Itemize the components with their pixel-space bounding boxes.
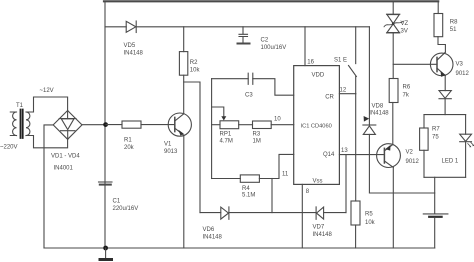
transistor V1 9013 [168,113,191,248]
transformer T1 core [21,110,23,139]
potentiometer RP1 [212,121,253,129]
resistor R2 [179,27,187,114]
svg-text:IN4148: IN4148 [203,235,223,241]
svg-text:11: 11 [282,172,289,178]
svg-text:IN4148: IN4148 [313,232,333,238]
svg-text:C1: C1 [113,199,121,205]
node junction bottom rail [103,246,108,251]
svg-text:VD5: VD5 [124,43,136,49]
svg-text:13: 13 [341,148,348,154]
diode VD9 under V3 [439,91,451,115]
svg-text:V2: V2 [406,150,414,156]
svg-text:~220V: ~220V [0,145,18,151]
svg-text:LED 1: LED 1 [442,159,459,165]
svg-text:R6: R6 [403,84,411,90]
svg-text:9013: 9013 [164,149,178,155]
svg-text:51: 51 [450,27,457,33]
svg-text:C2: C2 [261,38,269,44]
transistor V3 9012 [430,52,453,90]
svg-text:R7: R7 [432,127,440,133]
svg-text:IN4148: IN4148 [369,110,389,116]
svg-text:VD7: VD7 [313,225,325,231]
svg-text:T1: T1 [16,103,24,109]
wire pin 12 CR [339,93,355,95]
wire oscillator vertical [211,79,213,179]
capacitor C1 [99,182,113,185]
svg-text:220u/16V: 220u/16V [113,206,139,212]
svg-text:CR: CR [325,95,334,101]
wire bridge left vertex down to bottom rail [44,125,53,248]
svg-text:VDD: VDD [312,73,325,79]
wire R4 branch down to VD6 line [271,179,273,213]
wire R2 branch down to VD6 line [184,82,200,213]
resistor R1 [106,121,175,128]
svg-text:R4: R4 [242,186,250,192]
svg-text:9012: 9012 [406,159,420,165]
wire V3 base line [393,63,437,65]
diode VD5 [126,21,136,33]
svg-text:8: 8 [306,189,310,195]
wire bottom rail [44,247,435,249]
svg-text:10: 10 [274,116,281,122]
svg-text:IN4148: IN4148 [124,50,144,56]
svg-text:16: 16 [307,60,314,66]
bridge rectifier VD1-VD4 diamond [53,111,82,140]
diode VD6 [221,207,229,219]
svg-text:R1: R1 [124,138,132,144]
node junction bridge output [103,122,108,127]
wire pin 16 [304,27,306,66]
ground [105,248,107,258]
svg-text:RP1: RP1 [220,131,232,137]
svg-text:4.7M: 4.7M [220,139,233,145]
svg-text:R8: R8 [450,20,458,26]
svg-text:~12V: ~12V [40,88,54,94]
svg-text:9012: 9012 [456,71,470,77]
svg-text:C3: C3 [245,93,253,99]
svg-text:12: 12 [340,88,347,94]
transformer T1 secondary coil [26,112,30,136]
diode VD7 [316,207,324,219]
svg-text:R2: R2 [190,60,198,66]
wire top rail [104,0,438,2]
wire VD6 VD7 line [200,212,346,214]
battery cell [423,214,448,217]
svg-text:10k: 10k [190,67,201,73]
wire mid +12V rail [105,26,369,28]
wire VD8 column [368,27,370,125]
wire left vertical [104,1,106,248]
transistor V2 9012 [377,103,401,249]
resistor R3 [253,121,294,129]
svg-text:R5: R5 [365,212,373,218]
svg-text:1M: 1M [253,139,261,145]
transformer T1 primary terminals [10,112,16,136]
svg-text:3V: 3V [401,28,408,34]
svg-text:Q14: Q14 [323,152,335,158]
svg-text:V1: V1 [164,142,172,148]
R7 LED1 parallel box [424,115,466,178]
resistor R7 [420,115,429,178]
wire box bottom to battery [434,177,436,213]
zener VZ bidirectional [384,1,403,78]
svg-text:S1 E: S1 E [334,57,347,63]
svg-text:V3: V3 [456,62,464,68]
svg-text:IC1 CD4060: IC1 CD4060 [301,124,332,130]
svg-text:R3: R3 [253,131,261,137]
svg-text:VD8: VD8 [372,103,384,109]
svg-text:VD6: VD6 [203,227,215,233]
wire CR column to R5 [355,94,357,201]
svg-text:Vss: Vss [313,179,323,185]
svg-text:75: 75 [432,134,439,140]
svg-text:100u/16V: 100u/16V [261,45,287,51]
svg-text:5.1M: 5.1M [242,193,255,199]
transformer T1 primary coil [13,112,17,136]
wire pin 13 branch down to VD7 [345,155,347,213]
wire pin 8 Vss down [301,184,303,248]
svg-text:VD1 - VD4: VD1 - VD4 [51,154,80,160]
capacitor C3 [212,78,249,80]
diode VD8 [363,125,376,134]
wire bridge output [82,124,106,126]
arrow mark at VD8 [364,116,370,122]
switch S1 [349,27,357,94]
resistor R8 [434,1,445,52]
wire C3 to pin 9 [253,79,294,96]
resistor R6 [389,79,398,103]
resistor R4 [212,154,294,182]
wire secondary top to bridge top [26,97,68,112]
IC U1 CD4060 box [294,66,340,185]
svg-text:VZ: VZ [401,21,409,27]
svg-text:10k: 10k [365,220,376,226]
LED LED1 [460,115,474,178]
svg-text:7k: 7k [403,93,410,99]
svg-text:IN4001: IN4001 [54,166,74,172]
potentiometer RP1 wiper arrow [212,107,227,121]
capacitor C2 [238,27,250,44]
svg-text:20k: 20k [124,145,135,151]
wire secondary bottom to bridge bottom [26,136,68,148]
bridge inner diode [59,111,76,140]
wire pin 13 Q14 to V2 base [339,154,384,156]
resistor R5 [351,201,360,248]
